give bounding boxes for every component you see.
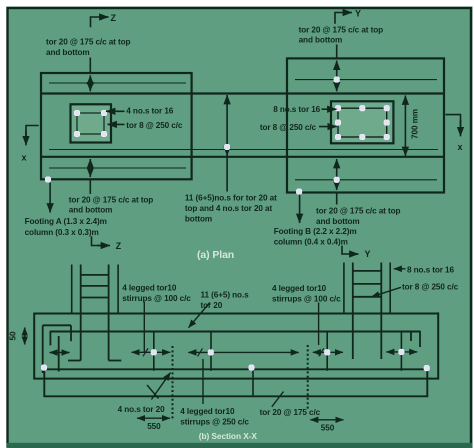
svg-text:and bottom: and bottom: [46, 48, 90, 57]
footing B outline (plan): [287, 58, 444, 192]
footing B top label leader: [336, 45, 338, 59]
column B stirrup rungs: [353, 270, 382, 272]
column A (plan): [71, 104, 112, 142]
footing A bottom strip dim arrow: [89, 159, 91, 177]
50 dim arrow: [24, 328, 26, 345]
top bar left end hook: [49, 331, 51, 346]
svg-text:Z: Z: [111, 13, 117, 23]
svg-text:stirrups @ 100 c/c: stirrups @ 100 c/c: [122, 294, 191, 303]
bottom dark band: [7, 443, 473, 448]
stirrup right zone: [400, 332, 402, 371]
svg-text:4 no.s tor 16: 4 no.s tor 16: [126, 107, 173, 116]
svg-text:Z: Z: [116, 241, 122, 251]
bottom bars link stirrup: [252, 369, 254, 396]
svg-text:and bottom: and bottom: [316, 217, 360, 226]
svg-text:4 legged tor10: 4 legged tor10: [272, 284, 327, 293]
zone B dim arrows: [313, 351, 343, 353]
svg-text:tor 8 @ 250 c/c: tor 8 @ 250 c/c: [260, 123, 317, 132]
svg-text:550: 550: [321, 423, 335, 432]
footing section outline: [34, 312, 438, 378]
handle dot on beam arrow: [224, 144, 229, 149]
footing A top label leader: [89, 58, 91, 74]
leader: tor 8 @ 250 (section diagonal): [372, 287, 402, 297]
svg-text:stirrups @ 100 c/c: stirrups @ 100 c/c: [272, 294, 341, 303]
svg-text:(a) Plan: (a) Plan: [197, 249, 234, 261]
footing A top strip dim arrow: [89, 75, 91, 91]
leader: 4 legged tor10 @100 (left): [143, 302, 145, 353]
footing A top inner rebar line: [49, 82, 186, 84]
bottom bar line (with end handles): [45, 368, 427, 370]
column A bar feet: [68, 360, 81, 362]
footing A outline (plan): [41, 73, 192, 179]
svg-text:Y: Y: [365, 249, 371, 259]
svg-text:tor 8 @ 250 c/c: tor 8 @ 250 c/c: [126, 121, 183, 130]
beam width dim arrow + leader to 11(6+5) label: [226, 95, 228, 156]
diagonal leader: 4 no.s tor 20: [147, 385, 159, 399]
beam inner rebar line: [49, 149, 438, 151]
svg-text:tor 20 @ 175 c/c at top: tor 20 @ 175 c/c at top: [316, 207, 401, 216]
svg-text:tor 20: tor 20: [201, 301, 223, 310]
axis X right: [446, 115, 461, 129]
dotted zone boundary 2: [307, 345, 309, 411]
footing B label arrow: [299, 195, 301, 224]
axis Z top: [91, 17, 106, 27]
svg-text:and bottom: and bottom: [299, 36, 343, 45]
handle dot right end bottom bar: [424, 365, 429, 370]
diagonal leader: 11(6+5) no.s tor 20: [189, 303, 210, 328]
leader arrow: tor 8 @ 250 c/c (B): [319, 126, 337, 128]
section column B bars: [352, 263, 354, 360]
svg-text:4 legged tor10: 4 legged tor10: [180, 407, 235, 416]
diagonal leader: tor 20 @ 175 c/c: [272, 392, 284, 407]
footing B top inner rebar line: [295, 79, 437, 81]
axis Z bottom: [92, 236, 102, 245]
section column A outer faces: [71, 265, 73, 314]
svg-text:11 (6+5)no.s for tor 20 at: 11 (6+5)no.s for tor 20 at: [185, 194, 277, 203]
svg-text:Footing B (2.2 x 2.2)m: Footing B (2.2 x 2.2)m: [274, 227, 357, 236]
svg-text:column (0.3 x 0.3)m: column (0.3 x 0.3)m: [25, 228, 99, 237]
footing A bottom label leader: [89, 180, 91, 194]
svg-text:top and 4 no.s tor 20 at: top and 4 no.s tor 20 at: [185, 204, 273, 213]
stirrup mid-left: [210, 332, 212, 371]
svg-text:11 (6+5) no.s: 11 (6+5) no.s: [201, 291, 250, 300]
svg-text:8 no.s tor 16: 8 no.s tor 16: [273, 105, 320, 114]
diagonal leader to dotted line1: [151, 373, 170, 400]
svg-text:550: 550: [147, 422, 161, 431]
left end upper bar with hook: [43, 324, 71, 326]
leader: 4 legged tor10 @250 label: [202, 359, 204, 404]
handle dot footing A bottom-left: [45, 177, 50, 182]
handle dot on footing B top line: [334, 77, 339, 82]
svg-text:Y: Y: [355, 9, 361, 19]
svg-text:8 no.s tor 16: 8 no.s tor 16: [407, 265, 454, 274]
footing top bar line: [50, 331, 420, 333]
svg-text:stirrups @ 250 c/c: stirrups @ 250 c/c: [180, 417, 249, 426]
footing B top strip dim arrow: [336, 61, 338, 92]
svg-text:bottom: bottom: [185, 215, 212, 224]
footing B bottom strip dim arrow: [336, 159, 338, 190]
svg-text:tor 8 @ 250 c/c: tor 8 @ 250 c/c: [402, 283, 459, 292]
left end anchorage dim arrow: [50, 352, 70, 354]
footing B bottom inner rebar line: [295, 179, 437, 181]
left end riser bars: [42, 325, 44, 373]
leader: 8 no.s tor 16 (section): [394, 268, 406, 270]
700 mm dim arrow: [404, 96, 406, 157]
svg-text:4 legged tor10: 4 legged tor10: [122, 284, 177, 293]
svg-text:tor 20 @ 175 c/c at top: tor 20 @ 175 c/c at top: [46, 38, 131, 47]
svg-text:tor 20 @ 175 c/c at top: tor 20 @ 175 c/c at top: [69, 195, 154, 204]
middle zone dim arrows: [188, 351, 298, 353]
top bar right end hooks: [419, 331, 421, 347]
svg-text:(b) Section X-X: (b) Section X-X: [199, 431, 258, 441]
svg-text:x: x: [458, 142, 463, 152]
svg-text:column (0.4 x 0.4)m: column (0.4 x 0.4)m: [274, 237, 348, 246]
handle dot left end bottom bar: [41, 365, 46, 370]
lower bent bar: [44, 370, 427, 396]
axis Y bottom: [342, 246, 354, 254]
section column A bars: [80, 265, 82, 361]
zone A dim arrows: [132, 351, 171, 353]
section column B outer faces: [343, 263, 345, 314]
stirrup under column B: [326, 332, 328, 371]
right zone dim arrows: [386, 351, 417, 353]
handle dot on footing B bottom line: [334, 177, 339, 182]
leader arrow: tor 8 @ 250 c/c (A): [108, 123, 125, 125]
leader: 4 legged tor10 @100 (right): [318, 303, 320, 346]
dotted zone boundary 1: [172, 346, 174, 420]
550 left dim arrow: [137, 417, 170, 419]
svg-text:tor 20 @ 175 c/c at top: tor 20 @ 175 c/c at top: [299, 25, 384, 34]
column B (plan): [331, 101, 393, 143]
svg-text:Footing A (1.3 x 2.4)m: Footing A (1.3 x 2.4)m: [25, 217, 107, 226]
svg-text:tor 20 @ 175 c/c: tor 20 @ 175 c/c: [260, 408, 321, 417]
handle dot middle bottom bar: [249, 365, 254, 370]
axis Y top: [335, 13, 348, 24]
svg-text:x: x: [22, 153, 27, 163]
svg-text:and bottom: and bottom: [69, 206, 113, 215]
column B bar dots: [335, 106, 389, 140]
footing B bottom label leader: [336, 194, 338, 205]
svg-text:50: 50: [9, 331, 18, 340]
leader arrow: 4 no.s tor 16: [106, 110, 125, 112]
column A bar dots: [74, 110, 106, 136]
column A ties rect: [77, 113, 104, 134]
svg-text:4 no.s tor 20: 4 no.s tor 20: [118, 405, 165, 414]
handle dot footing B bottom edge: [296, 189, 301, 194]
axis X left: [26, 126, 39, 140]
leader arrow: 8 no.s tor 16: [322, 108, 337, 110]
beam top edge (plan): [41, 92, 444, 94]
footing A label arrow: [49, 183, 51, 213]
svg-text:700 mm: 700 mm: [411, 109, 420, 139]
column A stirrup rungs: [81, 274, 109, 276]
beam bottom edge (plan): [41, 156, 444, 158]
550 right dim arrow: [310, 419, 343, 421]
stirrup under column A: [153, 332, 155, 371]
footing A bottom inner rebar line: [49, 167, 186, 169]
column B ties rect: [338, 108, 387, 137]
